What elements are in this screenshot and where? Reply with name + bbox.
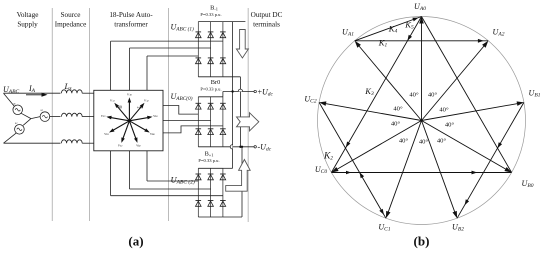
svg-text:UC1: UC1 [378,223,390,233]
center node [420,119,423,122]
wire transformer to bridge Br0 phase b [163,119,211,121]
wire riser to bridge B-1 phase a [110,41,112,90]
voltage source VB [40,108,50,121]
svg-text:-Udc: -Udc [258,143,272,153]
voltage source VA [13,101,23,114]
diode bridge Br0 D1 upper [196,103,202,109]
svg-text:K2: K2 [323,152,333,162]
svg-text:40°: 40° [419,139,429,146]
wire phase A top [4,92,61,94]
wire bridge B-1 leg 3 [222,22,224,77]
wire B-1 bottom bus extension [223,76,241,78]
section separator 2 [89,8,91,221]
winding chord UC0-UB0 [331,172,511,174]
svg-text:K1: K1 [378,38,388,49]
winding arrow at UC1 [379,209,384,215]
section separator 4 [247,8,249,222]
svg-text:40°: 40° [437,138,447,145]
diode bridge Br0 D5 lower [208,129,214,135]
wire source C to star point [23,119,31,126]
power flow arrow up with elbow [226,160,251,192]
wire hop at - collector over -Udc [230,145,232,149]
wire B+1 bottom link vertical [241,147,243,217]
phasor vector U_A2 [422,44,486,121]
section separator 1 [51,8,53,221]
wire bridge B-1 bottom bus [198,76,223,78]
winding arrow K4 at UA0 [412,18,418,22]
winding chord UB1-UB2 [457,102,524,218]
wire B+1 bottom bus extension [223,216,242,218]
svg-text:Voltage: Voltage [17,11,39,19]
wire bridge B-1 leg 2 [210,22,212,77]
svg-text:UABC: UABC [3,85,20,95]
winding chord UB0-UA0 [422,17,512,173]
wire coil B to transformer [82,116,94,118]
winding chord UC2-UC1 [319,102,386,218]
diode bridge B-1 D5 lower [208,58,214,64]
phasor vector U_C2 [323,103,421,120]
svg-text:Source: Source [61,11,81,19]
svg-text:K4: K4 [388,24,398,35]
wire Br0 top bus to +Udc bend [222,92,224,97]
svg-text:+Udc: +Udc [258,87,274,97]
svg-text:ac: ac [40,108,43,112]
svg-text:40°: 40° [439,107,449,114]
winding arrow K1 at UA2 [478,39,484,43]
svg-text:Output DC: Output DC [251,11,283,19]
winding chord K1 UA1-UA2 [355,40,489,42]
svg-text:40°: 40° [393,106,403,113]
wire +Udc node [223,91,254,93]
svg-text:P=0.33 p.u.: P=0.33 p.u. [198,158,219,163]
wire bridge B-1 leg 1 [197,22,199,77]
wire diag to source C [4,133,17,143]
wire - collector vertical [239,77,241,147]
phasor vector U_A1 [357,44,421,121]
winding chord UA0-UC0 (K5,K3,K2 segments) [331,17,421,173]
wire bridge B+1 leg 1 [197,168,199,217]
section separator 3 [168,8,170,221]
svg-text:(a): (a) [128,234,143,249]
diode bridge B+1 D2 upper [208,174,214,180]
svg-text:UB1: UB1 [529,89,541,99]
wire phase B middle [50,116,61,118]
wire hop at +Udc over - collector [238,89,242,91]
wire transformer to bridge Br0 phase c [163,126,223,133]
diode bridge Br0 D4 lower [196,129,202,135]
wire riser to bridge B+1 phase a [146,151,148,181]
diode bridge B-1 D4 lower [196,58,202,64]
svg-text:P=0.33 p.u.: P=0.33 p.u. [200,12,221,17]
wire coil C to transformer [82,142,94,144]
svg-text:UABC(0): UABC(0) [171,92,193,102]
diode bridge B+1 D5 lower [208,201,214,207]
svg-text:(b): (b) [414,234,430,249]
diode bridge Br0 D6 lower [220,129,226,135]
svg-text:K5: K5 [404,20,414,31]
inductor Ls A [61,90,82,93]
diode bridge Br0 D2 upper [208,103,214,109]
wire source B to star point [31,117,40,119]
svg-text:ac: ac [13,101,16,105]
svg-text:transformer: transformer [114,21,148,29]
power flow arrow right [237,113,259,131]
winding chord K4 UA1-UA0 [355,17,422,41]
wire coil A to transformer [82,92,94,94]
wire bridge B+1 leg 3 [222,168,224,217]
wire source A to star point [21,113,31,118]
diode bridge B-1 D3 upper [220,32,226,38]
svg-text:B+1: B+1 [205,150,214,157]
wire riser to bridge B-1 phase b [129,48,131,90]
wire + collector vertical [232,22,234,169]
svg-text:UA1: UA1 [342,28,354,38]
svg-text:-40: -40 [116,105,122,110]
terminal +Udc [254,90,256,92]
winding arrow near UC0 toward UB0 [346,171,351,175]
svg-text:ac: ac [15,121,18,125]
wire bridge Br0 leg 2 [210,97,212,147]
svg-text:B-1: B-1 [210,5,218,12]
power flow arrow down [236,30,248,59]
svg-text:40°: 40° [445,122,455,129]
svg-text:UA2: UA2 [493,28,505,38]
phasor vector U_B2 [422,121,456,215]
wire diag to source A [4,93,15,106]
diode bridge B-1 D6 lower [220,58,226,64]
svg-text:UABC (1): UABC (1) [171,23,195,33]
junction dots [231,90,233,92]
inductor Ls C [61,140,82,143]
svg-text:40°: 40° [428,92,438,99]
phasor circle [318,17,526,225]
wire riser to bridge B+1 phase b [129,151,131,189]
winding arrow K3 on UA0-UC0 [346,142,351,148]
diode bridge B+1 D4 lower [196,201,202,207]
winding arrow on UB1-UB2 near UB2 [465,199,470,205]
svg-text:+40: +40 [137,105,144,110]
winding arrow on UB1-UB2 upper [498,142,503,148]
wire bridge Br0 leg 1 [197,97,199,147]
terminal -Udc [254,146,256,148]
svg-text:UA0: UA0 [414,2,426,12]
svg-text:UC2: UC2 [304,95,316,105]
svg-text:K3: K3 [364,86,374,97]
diode bridge Br0 D3 upper [220,103,226,109]
svg-text:UABC (2): UABC (2) [171,174,195,185]
svg-text:40°: 40° [409,92,419,99]
voltage source VC [15,121,25,134]
svg-text:Supply: Supply [17,21,38,29]
svg-text:40°: 40° [399,138,409,145]
wire bridge Br0 bottom bus [198,146,223,148]
wire -Udc node [223,146,254,148]
svg-text:UC0: UC0 [315,165,327,175]
svg-text:IA: IA [28,84,36,94]
diode bridge B+1 D1 upper [196,174,202,180]
wire B+1 top bus extension [223,167,233,169]
wire riser to bridge B+1 phase c [110,151,112,196]
phasor vector U_B0 [422,121,508,171]
phasor vector U_C1 [387,121,421,215]
transformer phasor star [101,92,158,148]
svg-text:UB0: UB0 [522,179,534,189]
wire B-1 top bus extension [223,21,246,23]
winding arrow K5 on UA0-UC0 [407,35,412,41]
svg-text:Br0: Br0 [211,79,220,86]
phasor vector U_C0 [335,121,421,171]
wire bridge B+1 bottom bus [198,216,223,218]
inductor Ls B [61,113,82,116]
wire bridge B-1 top bus [198,21,223,23]
diode bridge B+1 D3 upper [220,174,226,180]
wire transformer to bridge Br0 phase a [163,106,198,115]
wire phase C bottom [4,142,61,144]
svg-text:Impedance: Impedance [55,21,87,29]
diode bridge B-1 D1 upper [196,32,202,38]
winding arrow on UC2-UC1 at UC0-UB0 crossing [360,172,365,178]
wire riser to bridge B-1 phase c [146,56,148,90]
transformer T1 box [94,90,163,151]
svg-text:terminals: terminals [253,21,280,29]
wire bridge Br0 top bus [198,96,223,98]
diode bridge B+1 D6 lower [220,201,226,207]
phasor vector U_A0 [421,21,423,121]
svg-text:P=0.33 p.u.: P=0.33 p.u. [200,87,221,92]
svg-text:18-Pulse Auto-: 18-Pulse Auto- [109,11,153,19]
winding arrow toward UB0 [472,171,478,175]
wire bridge B+1 leg 2 [210,168,212,217]
wire bridge B+1 top bus [198,167,223,169]
wire bridge Br0 leg 3 [222,97,224,147]
diode bridge B-1 D2 upper [208,32,214,38]
phasor vector U_B1 [422,103,520,120]
svg-text:40°: 40° [391,121,401,128]
current arrow I_A [26,94,44,96]
svg-text:UB2: UB2 [452,223,464,233]
